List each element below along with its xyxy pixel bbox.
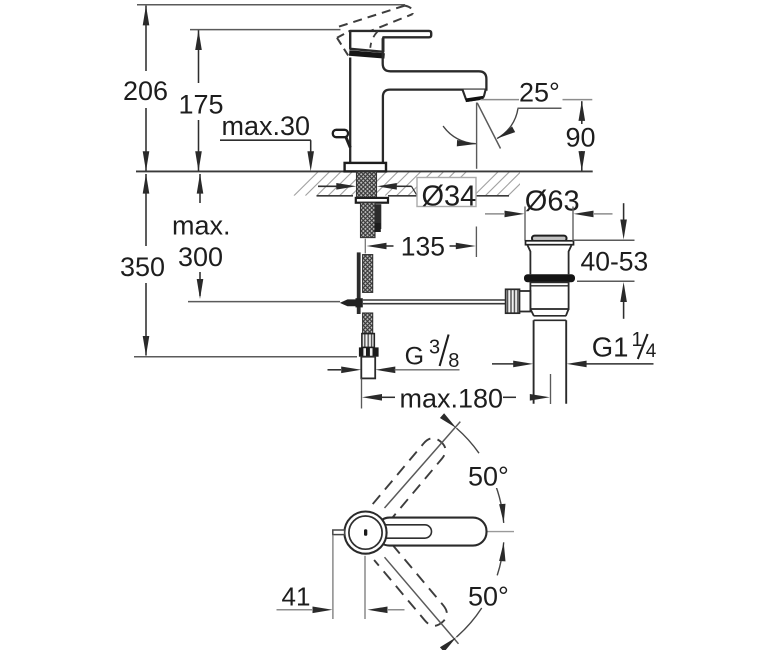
G3/8 nut slot right: [370, 348, 373, 356]
faucet handle dashed raised body back: [337, 38, 348, 56]
countertop bottom line mid: [388, 195, 417, 197]
max.30 leader vertical: [310, 140, 312, 154]
dimension G1-1/4 tail right: [586, 363, 654, 365]
dimension 90 line upper: [581, 101, 583, 124]
water stream 25-degree line: [477, 103, 500, 149]
svg-text:8: 8: [448, 350, 459, 372]
50-degree upper arc arrowhead at line: [440, 413, 457, 428]
dimension 41 arrow left: [313, 607, 333, 614]
dimension O34 tail right: [396, 185, 412, 187]
dimension 175 line upper: [198, 30, 200, 83]
faucet base plate: [345, 163, 386, 172]
top view lever inner slot: [378, 525, 432, 538]
25-degree leader line: [518, 107, 562, 109]
top view axis line: [430, 531, 514, 533]
pivot centre tick: [364, 529, 367, 536]
dimension max.180 tail left: [381, 396, 396, 398]
svg-text:41: 41: [282, 582, 311, 612]
dimension 90 arrow down: [579, 151, 586, 171]
pivot inner circle: [349, 516, 382, 549]
dimension 350 arrow down: [143, 336, 150, 356]
dimension O34 arrow left: [336, 183, 356, 190]
svg-text:max.: max.: [172, 211, 231, 241]
25-degree arc right arrowhead: [497, 127, 515, 139]
supply hose lower (braided): [363, 313, 373, 334]
horizontal reference line at outlet right part: [563, 99, 593, 101]
dimension 175 arrow up: [195, 30, 202, 50]
dimension 41 arrow right: [368, 607, 388, 614]
G3/8 nut: [359, 347, 379, 356]
horizontal linkage rod top line: [363, 299, 506, 301]
label 50 degrees lower backing: [464, 580, 513, 607]
countertop hatching: [294, 172, 532, 196]
extension line O63 right: [572, 207, 574, 241]
drain plug disc: [532, 236, 567, 242]
extension line 41 left: [332, 535, 334, 619]
svg-text:90: 90: [565, 123, 595, 153]
top view lever outline: [376, 518, 487, 546]
dimension 175 arrow down: [195, 151, 202, 171]
pop-up rod vertical: [357, 252, 361, 314]
dimension G3/8 tail left: [328, 369, 342, 371]
dimension O63 tail right: [594, 213, 613, 215]
dimension 40-53 arrow down: [620, 220, 627, 240]
dimension max.300 line upper: [199, 174, 201, 203]
dimension G3/8 arrow right: [375, 367, 395, 374]
svg-text:206: 206: [123, 76, 168, 106]
dimension 40-53 arrow up: [620, 282, 627, 302]
drain rubber gasket: [524, 274, 575, 282]
dimension O63 tail left: [485, 213, 504, 215]
G3/8 nipple: [361, 357, 375, 379]
dimension 40-53 upper shaft: [623, 203, 625, 224]
hose ferrule: [362, 334, 374, 348]
dimension max.180 arrow left: [362, 394, 382, 401]
50-degree upper arc arrowhead at axis: [499, 504, 505, 523]
dimension max.180 arrow right: [530, 394, 550, 401]
extension line at stream for 135: [475, 227, 477, 258]
pop-up rod clevis: [340, 299, 356, 306]
dimension 90 line lower: [581, 151, 583, 171]
faucet lever and handle body outline: [350, 31, 431, 52]
50-degree lower arc segment a: [497, 542, 504, 575]
dashed lever rotated down 50: [374, 545, 451, 630]
svg-text:50°: 50°: [468, 462, 509, 492]
countertop bottom line right: [474, 195, 509, 197]
dimension max.300 arrow down: [197, 279, 204, 299]
dimension 350 line upper: [145, 174, 147, 246]
drain body below gasket: [530, 282, 568, 309]
dimension 350 arrow up: [143, 174, 150, 194]
faucet lift knob stem: [346, 137, 351, 148]
drain lower taper left: [530, 309, 533, 316]
dimension 90 arrow up: [579, 101, 586, 121]
svg-text:4: 4: [646, 341, 657, 362]
dimension O34 arrow right: [377, 183, 397, 190]
faucet pop-up lift knob: [333, 130, 348, 137]
faucet handle dashed raised lever top edge: [339, 6, 405, 27]
faucet handle dashed raised body top: [337, 31, 350, 38]
drain body upper taper right: [569, 245, 572, 275]
dimension O63 arrow right: [574, 211, 594, 218]
extension line O63 left: [524, 207, 526, 241]
dimension max.180 tail right: [503, 396, 516, 398]
svg-text:3: 3: [429, 337, 440, 359]
svg-text:25°: 25°: [519, 78, 560, 108]
faucet cartridge cap (thick): [349, 53, 384, 56]
drain side port knurled cap: [506, 289, 520, 313]
mounting stud: [375, 204, 381, 229]
horizontal linkage rod bottom line: [363, 303, 506, 305]
svg-text:40-53: 40-53: [581, 246, 649, 276]
extension line 41 centre: [364, 556, 366, 619]
horizontal reference line at outlet left part: [481, 99, 520, 101]
pivot outer circle: [344, 511, 386, 553]
label G3/8: [405, 335, 460, 373]
supply hose upper (braided): [363, 255, 373, 293]
water stream vertical line: [476, 103, 478, 169]
label 50 degrees upper backing: [464, 463, 511, 488]
reference line max.300 bottom / pop-up rod: [188, 301, 340, 303]
faucet spout outlet (aerator): [463, 90, 486, 101]
reference line 40-53 upper: [573, 239, 635, 241]
faucet handle dashed raised lever tip: [405, 6, 413, 15]
50-degree lower arc arrowhead at axis: [499, 542, 505, 561]
svg-text:50°: 50°: [468, 582, 509, 612]
faucet centre line: [364, 239, 366, 254]
svg-text:max.180: max.180: [400, 384, 504, 414]
dimension 175 line lower: [198, 120, 200, 171]
dimension G1-1/4 arrow left: [513, 361, 533, 368]
dimension max.300 arrow up: [197, 174, 204, 194]
dimension 40-53 lower shaft: [623, 298, 625, 319]
svg-text:300: 300: [178, 242, 223, 272]
drain body upper taper left: [527, 245, 530, 275]
dimension G3/8 tail right: [395, 369, 460, 371]
mounting washer: [356, 198, 388, 203]
threaded shank lower (hatched): [361, 203, 376, 238]
dimension 135 arrow left: [367, 243, 387, 250]
dimension max.300 line lower: [199, 272, 201, 296]
max.30 arrow down: [307, 151, 314, 171]
dimension O34 leader step: [412, 186, 418, 195]
svg-text:1: 1: [632, 329, 643, 351]
dimension 206 line lower: [145, 108, 147, 171]
dimension 41 tail right: [387, 609, 405, 611]
faucet handle dashed raised body inner curl: [370, 32, 377, 48]
50-degree line upper: [385, 422, 461, 508]
25-degree arc left segment: [443, 126, 476, 144]
extension line max.180 left: [361, 379, 363, 409]
dimension G1-1/4 tail left: [492, 363, 514, 365]
drain tailpipe right edge: [565, 320, 567, 403]
dimension G3/8 arrow left: [341, 367, 361, 374]
faucet outlet thick lip: [466, 98, 484, 101]
50-degree upper arc segment a: [456, 428, 479, 453]
extension line max.180 right (drain centre): [550, 374, 552, 404]
svg-text:Ø34: Ø34: [422, 180, 477, 212]
faucet body column and spout outline: [350, 38, 486, 163]
pop-up rod joint block: [356, 298, 363, 307]
50-degree lower arc segment b: [456, 608, 481, 637]
dimension O34 arrow line left: [318, 185, 338, 187]
25-degree arc left arrowhead: [457, 140, 476, 146]
dimension 135 tail left: [386, 245, 394, 247]
50-degree lower arc arrowhead at line: [440, 637, 457, 652]
drain joint line 2: [534, 319, 567, 321]
drain tailpipe left edge: [533, 320, 535, 403]
drain body seam line: [530, 285, 568, 287]
pivot left nub: [333, 530, 345, 535]
dimension 206 arrow down: [143, 151, 150, 171]
dimension G1-1/4 arrow right: [567, 361, 587, 368]
50-degree upper arc segment b: [496, 485, 504, 523]
reference line 350 bottom: [134, 356, 357, 358]
reference line 40-53 lower: [577, 280, 635, 282]
reference line top of lever (175 level): [190, 29, 341, 31]
drain flange rim: [526, 241, 574, 245]
svg-text:350: 350: [120, 252, 165, 282]
dashed lever rotated up 50: [373, 434, 450, 519]
mounting stud nut: [375, 223, 381, 232]
dimension 135 arrow right: [456, 243, 476, 250]
drain joint line 1: [534, 315, 567, 317]
dimension O63 arrow left: [505, 211, 525, 218]
25-degree arc right segment: [497, 108, 518, 138]
drain lower taper right: [566, 309, 569, 316]
countertop bottom line left: [317, 195, 354, 197]
faucet handle dashed raised lever bottom edge: [352, 14, 413, 38]
drain side port body: [516, 291, 530, 312]
svg-text:max.30: max.30: [222, 111, 311, 141]
countertop top line: [136, 170, 593, 172]
dimension 206 arrow up: [143, 5, 150, 25]
dimension 135 tail right: [450, 245, 457, 247]
svg-text:G1: G1: [592, 332, 629, 363]
svg-text:175: 175: [179, 90, 224, 120]
svg-text:G: G: [405, 343, 424, 371]
G3/8 nut slot left: [363, 348, 366, 356]
max.30 leader underline: [220, 139, 311, 141]
dimension 41 tail left: [277, 609, 313, 611]
50-degree line lower: [385, 557, 459, 644]
svg-text:135: 135: [401, 232, 445, 262]
reference line top of handle (206 level): [137, 4, 405, 6]
label G1 1/4: [592, 329, 657, 362]
dimension 350 line lower: [145, 283, 147, 356]
label box O34: [417, 178, 476, 207]
svg-text:Ø63: Ø63: [525, 186, 580, 218]
dimension 206 line upper: [145, 6, 147, 71]
threaded shank upper (hatched): [357, 172, 377, 198]
